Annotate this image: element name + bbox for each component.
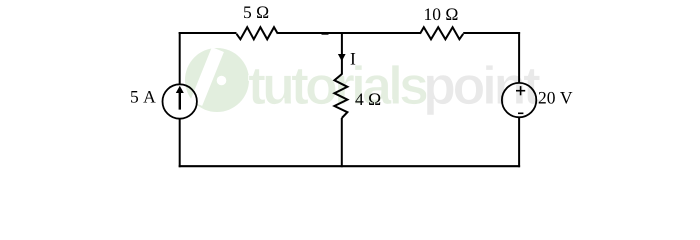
watermark logo circle	[185, 47, 249, 112]
label I	[351, 53, 356, 64]
resistor R1 5 ohm	[237, 27, 278, 39]
label 5 A	[131, 91, 156, 103]
wire top rail left	[179, 32, 237, 34]
wire left vertical top	[179, 32, 181, 84]
wire top rail right	[463, 32, 520, 34]
resistor R3 4 ohm vertical	[334, 74, 347, 118]
watermark text point	[427, 65, 541, 115]
current direction arrow I	[338, 54, 346, 61]
watermark text tutorials	[249, 65, 427, 105]
wire right vertical bottom	[518, 117, 520, 167]
wire top rail middle	[278, 32, 420, 34]
wire bottom rail	[179, 165, 520, 167]
current source arrow	[176, 86, 184, 110]
wire left vertical bottom	[179, 119, 181, 168]
label 5 ohm	[244, 6, 268, 18]
label 20 V	[539, 92, 573, 104]
junction artifact	[322, 32, 329, 35]
minus sign	[518, 112, 523, 114]
wire middle vertical top with current arrow stem	[341, 32, 343, 75]
label 4 ohm	[355, 93, 380, 105]
label 10 ohm	[425, 8, 457, 20]
wire middle vertical bottom	[341, 118, 343, 167]
resistor R2 10 ohm	[420, 27, 463, 39]
wire right vertical top	[518, 32, 520, 83]
plus sign	[516, 86, 525, 95]
current source I1 circle	[163, 84, 197, 118]
voltage source V1 circle	[502, 83, 536, 117]
